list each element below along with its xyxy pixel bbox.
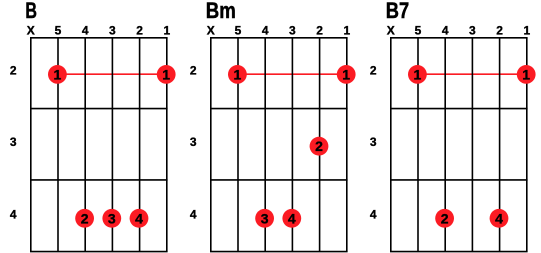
fret line 2 xyxy=(210,179,348,181)
string line 2 xyxy=(499,38,501,252)
string line 3 xyxy=(471,38,473,252)
svg-text:4: 4 xyxy=(10,207,17,221)
fret line 3 xyxy=(210,251,348,253)
finger dot 2 on string 4 xyxy=(435,209,454,228)
finger dot 3 on string 4 xyxy=(255,209,274,228)
finger dot 1 on string 5 xyxy=(48,65,67,84)
fret line 0 xyxy=(390,37,528,39)
svg-text:4: 4 xyxy=(495,210,503,226)
svg-text:3: 3 xyxy=(469,24,476,38)
finger dot 3 on string 3 xyxy=(102,209,121,228)
svg-text:X: X xyxy=(27,24,35,38)
string line 5 xyxy=(417,38,419,252)
svg-text:1: 1 xyxy=(522,66,530,82)
svg-text:2: 2 xyxy=(316,24,323,38)
fret line 0 xyxy=(30,37,168,39)
svg-text:3: 3 xyxy=(190,135,197,149)
finger dot 1 on string 5 xyxy=(228,65,247,84)
string line X xyxy=(30,38,32,252)
string line 4 xyxy=(84,38,86,252)
svg-text:2: 2 xyxy=(441,210,449,226)
string line 1 xyxy=(526,38,528,252)
string line 5 xyxy=(57,38,59,252)
svg-text:2: 2 xyxy=(315,138,323,154)
svg-text:2: 2 xyxy=(136,24,143,38)
chord diagram B7 xyxy=(370,0,536,252)
barre line fret 2 xyxy=(58,73,167,75)
chord diagram B xyxy=(10,0,176,252)
finger dot 1 on string 5 xyxy=(408,65,427,84)
finger dot 1 on string 1 xyxy=(517,65,536,84)
svg-text:3: 3 xyxy=(108,210,116,226)
string line 4 xyxy=(264,38,266,252)
svg-text:4: 4 xyxy=(135,210,143,226)
svg-text:5: 5 xyxy=(55,24,62,38)
finger dot 1 on string 1 xyxy=(337,65,356,84)
fret line 3 xyxy=(30,251,168,253)
string line 3 xyxy=(291,38,293,252)
finger dot 4 on string 3 xyxy=(282,209,301,228)
svg-text:2: 2 xyxy=(81,210,89,226)
finger dot 4 on string 2 xyxy=(130,209,149,228)
svg-text:4: 4 xyxy=(370,207,377,221)
svg-text:4: 4 xyxy=(442,24,449,38)
svg-text:1: 1 xyxy=(163,24,170,38)
fret line 1 xyxy=(390,108,528,110)
fret line 3 xyxy=(390,251,528,253)
svg-text:Bm: Bm xyxy=(206,0,236,23)
fret line 2 xyxy=(30,179,168,181)
string line 2 xyxy=(319,38,321,252)
svg-text:3: 3 xyxy=(289,24,296,38)
svg-text:2: 2 xyxy=(10,64,17,78)
svg-text:1: 1 xyxy=(343,24,350,38)
string line 3 xyxy=(111,38,113,252)
chord diagram Bm xyxy=(190,0,356,252)
fret line 1 xyxy=(30,108,168,110)
svg-text:1: 1 xyxy=(234,66,242,82)
svg-text:B: B xyxy=(25,0,37,23)
svg-text:2: 2 xyxy=(370,64,377,78)
svg-text:4: 4 xyxy=(190,207,197,221)
string line 4 xyxy=(444,38,446,252)
svg-text:5: 5 xyxy=(415,24,422,38)
finger dot 2 on string 2 xyxy=(310,137,329,156)
svg-text:3: 3 xyxy=(370,135,377,149)
string line X xyxy=(390,38,392,252)
svg-text:B7: B7 xyxy=(386,0,409,23)
string line X xyxy=(210,38,212,252)
svg-text:2: 2 xyxy=(496,24,503,38)
svg-text:4: 4 xyxy=(82,24,89,38)
finger dot 1 on string 1 xyxy=(157,65,176,84)
svg-text:3: 3 xyxy=(261,210,269,226)
svg-text:1: 1 xyxy=(162,66,170,82)
barre line fret 2 xyxy=(418,73,527,75)
svg-text:4: 4 xyxy=(262,24,269,38)
svg-text:1: 1 xyxy=(54,66,62,82)
svg-text:3: 3 xyxy=(10,135,17,149)
svg-text:1: 1 xyxy=(414,66,422,82)
svg-text:5: 5 xyxy=(235,24,242,38)
string line 1 xyxy=(346,38,348,252)
svg-text:2: 2 xyxy=(190,64,197,78)
fret line 2 xyxy=(390,179,528,181)
string line 2 xyxy=(139,38,141,252)
svg-text:1: 1 xyxy=(523,24,530,38)
string line 5 xyxy=(237,38,239,252)
string line 1 xyxy=(166,38,168,252)
svg-text:3: 3 xyxy=(109,24,116,38)
fret line 0 xyxy=(210,37,348,39)
svg-text:1: 1 xyxy=(342,66,350,82)
svg-text:X: X xyxy=(387,24,395,38)
finger dot 4 on string 2 xyxy=(490,209,509,228)
fret line 1 xyxy=(210,108,348,110)
barre line fret 2 xyxy=(238,73,347,75)
svg-text:4: 4 xyxy=(288,210,296,226)
finger dot 2 on string 4 xyxy=(75,209,94,228)
svg-text:X: X xyxy=(207,24,215,38)
